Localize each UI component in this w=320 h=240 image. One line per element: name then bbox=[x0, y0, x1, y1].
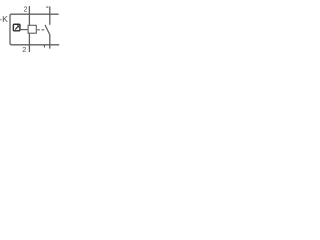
coil K1 box bbox=[28, 25, 36, 33]
wire coil bottom to bottom rail and below bbox=[28, 33, 30, 52]
label dash (top right) bbox=[46, 6, 48, 8]
link icon (square with NE arrow) bbox=[13, 24, 20, 31]
svg-text:2: 2 bbox=[22, 45, 26, 54]
contact upper terminal wire bbox=[49, 6, 51, 24]
contact blade bbox=[45, 25, 50, 35]
svg-text:-K: -K bbox=[0, 14, 8, 24]
mechanical link dashed bbox=[37, 29, 44, 31]
wire middle vertical upper stub to coil bbox=[28, 6, 30, 25]
background bbox=[0, 0, 60, 60]
contact lower terminal wire bbox=[49, 34, 51, 48]
svg-text:2: 2 bbox=[24, 7, 28, 14]
wire icon to coil bbox=[20, 29, 28, 31]
label mark (bottom right) bbox=[44, 45, 45, 47]
wire top rail with left vertical and bottom rail (branch frame) bbox=[10, 14, 59, 45]
